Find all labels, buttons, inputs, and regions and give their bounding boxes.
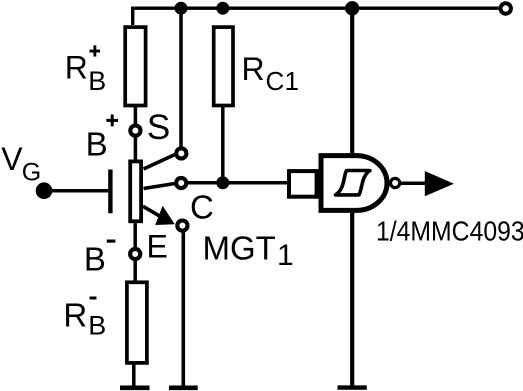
svg-text:G: G: [22, 158, 41, 186]
svg-text:B: B: [88, 66, 106, 96]
svg-text:C: C: [190, 188, 214, 225]
svg-text:S: S: [147, 108, 170, 147]
pin S diagonal lead: [144, 154, 177, 169]
svg-text:R: R: [63, 297, 87, 334]
label VG: [1, 141, 41, 186]
svg-text:1/4MMC4093: 1/4MMC4093: [376, 215, 523, 247]
terminal VDD (open circle, top right): [501, 3, 511, 13]
resistor RB+: [125, 27, 145, 105]
wire VG to gate: [44, 189, 108, 193]
wire B- to MGT body bottom: [133, 223, 137, 248]
terminal C (open circle): [176, 178, 186, 188]
svg-text:V: V: [1, 141, 23, 177]
resistor RB-: [127, 282, 147, 363]
junction dot (S wire / top rail): [175, 2, 188, 15]
svg-text:R: R: [65, 49, 88, 85]
terminal E (open circle): [177, 221, 187, 231]
terminal B- (open circle): [130, 249, 140, 259]
pin E lead with arrow: [143, 206, 175, 225]
svg-text:R: R: [242, 51, 265, 87]
svg-text:MGT: MGT: [203, 230, 276, 267]
label RC1: [242, 51, 299, 96]
gate U1 body (Schmitt NAND 1/4 MC4093): [321, 156, 387, 211]
terminal S (open circle): [176, 148, 186, 158]
ground (under E): [169, 385, 198, 390]
hysteresis symbol: [336, 171, 370, 195]
wire RB- to ground: [132, 364, 136, 387]
junction dot (gate supply / top rail): [345, 1, 359, 15]
wire RB+ bottom to B+ terminal: [134, 107, 138, 125]
gate U1 output bubble: [391, 178, 400, 187]
resistor RC1: [214, 27, 233, 105]
gate U1 input square: [289, 171, 317, 197]
svg-text:B: B: [84, 241, 106, 278]
ground (under RB-): [120, 385, 150, 390]
label MGT1: [203, 230, 294, 272]
wire B- to RB-: [133, 260, 137, 281]
node VG (filled dot): [36, 182, 53, 199]
output arrowhead: [425, 171, 454, 196]
wire gate output: [401, 181, 433, 185]
svg-text:C: C: [266, 66, 285, 96]
wire RC1 bottom to C node: [221, 107, 225, 183]
svg-text:B: B: [86, 125, 108, 162]
label B-: [84, 240, 116, 278]
svg-text:E: E: [147, 228, 168, 264]
transistor MGT1 body bar: [130, 161, 141, 221]
junction dot (RC1 / top rail): [216, 2, 229, 15]
wire S terminal to top rail: [179, 8, 183, 147]
svg-text:1: 1: [277, 239, 294, 272]
label B+: [86, 115, 119, 163]
wire gate supply from top rail: [350, 8, 354, 155]
ground (under gate): [338, 385, 367, 389]
wire C terminal to gate input: [187, 181, 287, 185]
wire E terminal to ground: [182, 231, 186, 386]
pin C diagonal lead: [144, 183, 176, 188]
wire B+ to MGT body top: [134, 136, 138, 160]
terminal B+ (open circle): [130, 126, 140, 136]
wire top supply rail: [133, 8, 499, 25]
transistor MGT1 gate electrode: [108, 170, 112, 214]
svg-text:1: 1: [285, 66, 299, 96]
wire gate to ground: [350, 211, 354, 387]
label RB-: [63, 297, 106, 341]
svg-text:B: B: [88, 311, 106, 341]
junction dot (RC1 bottom / C wire): [216, 176, 229, 189]
label RB+: [65, 45, 107, 96]
